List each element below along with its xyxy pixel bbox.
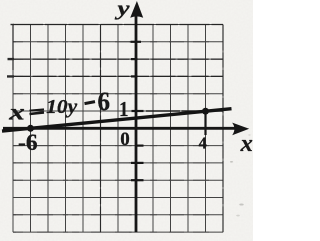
point (-6, 0): [27, 125, 34, 132]
svg-text:0: 0: [120, 129, 130, 150]
svg-text:x: x: [8, 100, 25, 125]
ticks on y axis: [131, 42, 144, 180]
x axis: [3, 127, 236, 130]
x axis arrowhead: [232, 123, 249, 136]
faint scan specks: [230, 134, 251, 216]
equation label x = 10y - 6: [8, 87, 110, 125]
y axis: [135, 14, 138, 232]
svg-text:4: 4: [199, 134, 207, 153]
svg-text:x: x: [240, 131, 253, 157]
ink blobs at left edge of rows: [7, 59, 14, 76]
svg-text:-6: -6: [18, 130, 38, 156]
plotted line x = 10y - 6: [2, 109, 232, 131]
y axis arrowhead: [130, 1, 143, 18]
tick on x axis at x=4: [204, 113, 206, 135]
svg-text:6: 6: [98, 87, 111, 116]
point (4, 1): [202, 108, 209, 115]
darker photocopied strokes: [13, 59, 223, 76]
eq equals sign: [30, 109, 45, 110]
svg-text:10y: 10y: [46, 96, 77, 118]
paper background: [0, 0, 253, 241]
eq minus sign: [85, 102, 96, 104]
svg-text:1: 1: [119, 97, 129, 121]
dark segment of y=1 grid row near point: [146, 110, 223, 112]
